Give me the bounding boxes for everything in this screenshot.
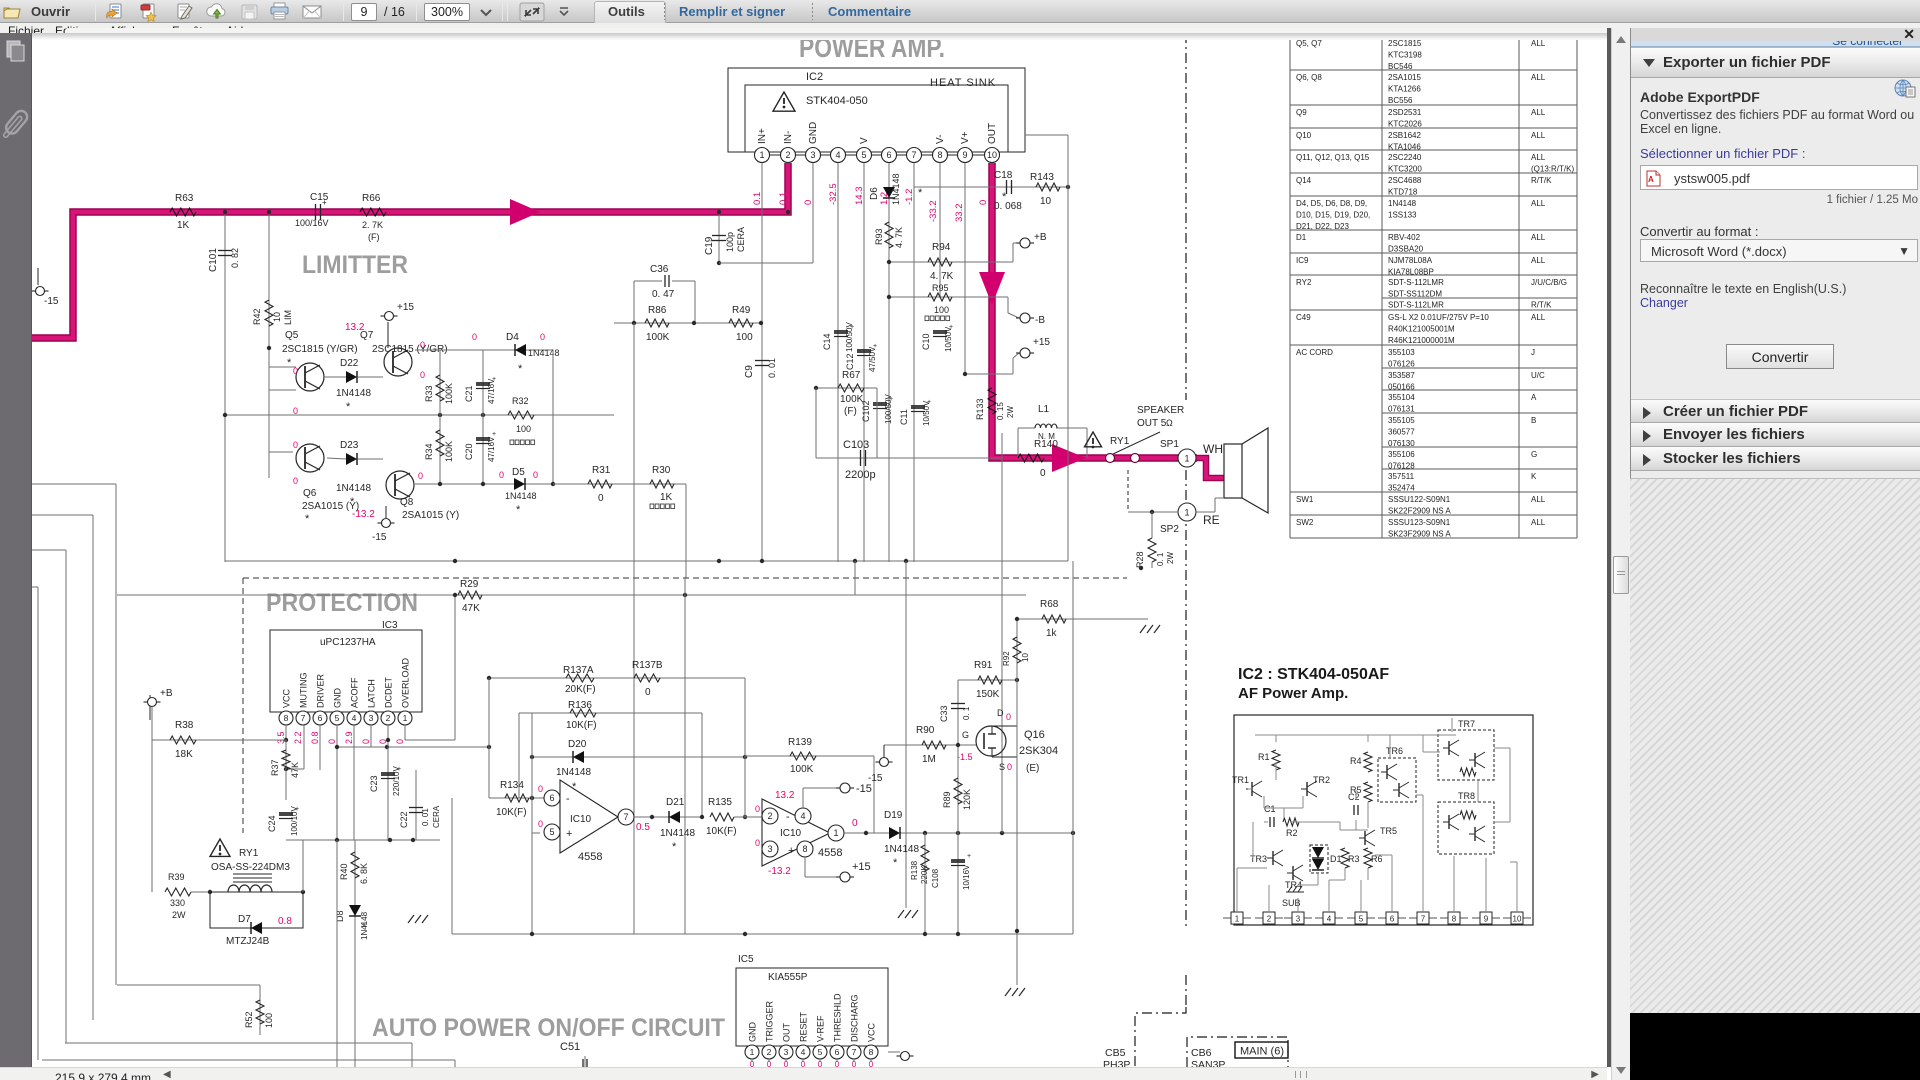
svg-text:4: 4: [1327, 915, 1332, 924]
svg-text:0: 0: [852, 1060, 857, 1067]
svg-text:D4: D4: [506, 332, 519, 343]
svg-text:Q14: Q14: [1296, 176, 1312, 185]
svg-text:R29: R29: [460, 579, 479, 590]
svg-text:0: 0: [418, 471, 423, 481]
svg-text:C14: C14: [822, 333, 832, 350]
svg-text:ALL: ALL: [1531, 39, 1546, 48]
svg-text:C108: C108: [931, 868, 940, 888]
svg-text:076128: 076128: [1388, 462, 1415, 471]
svg-text:K: K: [1531, 472, 1537, 481]
svg-text:LIM: LIM: [283, 310, 293, 325]
svg-text:1: 1: [759, 150, 764, 160]
svg-text:D: D: [997, 708, 1004, 718]
svg-text:Q5, Q7: Q5, Q7: [1296, 39, 1322, 48]
svg-text:2: 2: [767, 811, 772, 821]
svg-text:OUT 5: OUT 5: [1137, 418, 1167, 429]
svg-text:5: 5: [1359, 915, 1364, 924]
svg-text:0: 0: [645, 687, 651, 698]
svg-text:OUT: OUT: [782, 1023, 792, 1043]
svg-text:0: 0: [978, 200, 989, 205]
svg-text:7: 7: [623, 812, 628, 822]
svg-text:33.2: 33.2: [954, 204, 965, 223]
svg-text:D19: D19: [884, 810, 903, 821]
svg-text:R46K121000001M: R46K121000001M: [1388, 336, 1455, 345]
svg-text:SW2: SW2: [1296, 518, 1314, 527]
svg-text:J/U/C/B/G: J/U/C/B/G: [1531, 278, 1567, 287]
svg-text:10K(F): 10K(F): [706, 826, 737, 837]
svg-text:R92: R92: [1002, 651, 1011, 666]
svg-text:4558: 4558: [578, 851, 602, 863]
svg-text:0.5: 0.5: [636, 822, 650, 833]
svg-text:DCDET: DCDET: [384, 676, 394, 708]
svg-text:2SB1642: 2SB1642: [1388, 131, 1421, 140]
svg-text:2W: 2W: [1166, 552, 1175, 564]
svg-text:0: 0: [420, 370, 425, 380]
svg-text:MTZJ24B: MTZJ24B: [226, 936, 270, 947]
svg-text:VCC: VCC: [867, 1022, 877, 1042]
svg-text:BC546: BC546: [1388, 62, 1413, 71]
svg-text:13.2: 13.2: [345, 322, 365, 333]
svg-text:LIMITTER: LIMITTER: [302, 251, 408, 279]
svg-text:SAN3P: SAN3P: [1191, 1059, 1225, 1067]
svg-text:6: 6: [835, 1047, 840, 1057]
svg-text:0: 0: [755, 804, 760, 814]
svg-text:-15: -15: [868, 773, 883, 784]
svg-text:+: +: [566, 828, 572, 840]
svg-text:47/50V: 47/50V: [868, 346, 877, 372]
svg-text:GND: GND: [808, 122, 819, 144]
svg-text:0.1: 0.1: [778, 192, 789, 205]
svg-text:R33: R33: [424, 385, 434, 402]
svg-text:R94: R94: [932, 242, 951, 253]
svg-text:R137A: R137A: [563, 665, 594, 676]
svg-text:0: 0: [293, 476, 298, 486]
svg-text:SP1: SP1: [1160, 439, 1179, 450]
svg-text:-13.2: -13.2: [768, 866, 791, 877]
svg-text:CERA: CERA: [432, 805, 441, 828]
svg-text:TR8: TR8: [1458, 791, 1475, 801]
svg-text:S: S: [999, 762, 1005, 772]
svg-text:IN-: IN-: [783, 131, 794, 144]
svg-text:C103: C103: [843, 439, 869, 451]
svg-text:TR7: TR7: [1458, 719, 1475, 729]
svg-text:5: 5: [335, 713, 340, 723]
svg-text:R42: R42: [252, 308, 262, 325]
svg-text:R137B: R137B: [632, 660, 663, 671]
svg-text:C9: C9: [744, 365, 755, 378]
svg-text:R28: R28: [1135, 551, 1145, 568]
svg-text:Q9: Q9: [1296, 108, 1307, 117]
svg-text:0. 01: 0. 01: [421, 808, 430, 826]
svg-text:R37: R37: [270, 759, 280, 776]
svg-text:TR6: TR6: [1386, 746, 1403, 756]
svg-text:8: 8: [284, 713, 289, 723]
svg-text:-15: -15: [372, 532, 387, 543]
svg-text:ALL: ALL: [1531, 73, 1546, 82]
svg-text:13.2: 13.2: [775, 790, 795, 801]
svg-text:0: 0: [869, 1060, 874, 1067]
svg-text:R52: R52: [244, 1011, 254, 1028]
svg-text:0: 0: [538, 819, 543, 829]
svg-text:+B: +B: [1034, 232, 1047, 243]
svg-text:2SA1015 (Y): 2SA1015 (Y): [302, 501, 359, 512]
svg-text:C33: C33: [939, 705, 949, 722]
svg-text:-B: -B: [1035, 315, 1045, 326]
svg-text:-: -: [566, 793, 570, 805]
svg-text:1N4148: 1N4148: [891, 173, 901, 205]
svg-text:GND: GND: [333, 688, 343, 709]
svg-text:C11: C11: [899, 409, 909, 425]
svg-text:R67: R67: [842, 370, 861, 381]
svg-text:SP2: SP2: [1160, 524, 1179, 535]
svg-text:-: -: [786, 811, 790, 823]
svg-text:D1: D1: [1330, 854, 1342, 864]
svg-text:18K: 18K: [175, 749, 193, 760]
svg-text:OSA-SS-224DM3: OSA-SS-224DM3: [211, 862, 290, 873]
svg-text:0. 47: 0. 47: [652, 289, 675, 300]
svg-text:RBV-402: RBV-402: [1388, 233, 1421, 242]
svg-text:C21: C21: [464, 385, 474, 402]
svg-text:0. 82: 0. 82: [230, 248, 240, 268]
svg-text:+15: +15: [1033, 337, 1050, 348]
svg-text:RY1: RY1: [1110, 436, 1130, 447]
svg-text:076130: 076130: [1388, 439, 1415, 448]
svg-text:2: 2: [1267, 915, 1272, 924]
svg-text:uPC1237HA: uPC1237HA: [320, 637, 376, 648]
svg-text:1N4148: 1N4148: [336, 483, 371, 494]
svg-text:SK23F2909 NS A: SK23F2909 NS A: [1388, 530, 1451, 539]
svg-text:R1: R1: [1258, 752, 1270, 762]
svg-text:47K: 47K: [290, 762, 300, 778]
svg-text:R134: R134: [500, 780, 524, 791]
svg-text:0: 0: [852, 818, 858, 829]
svg-text:R38: R38: [175, 720, 194, 731]
svg-text:ALL: ALL: [1531, 313, 1546, 322]
svg-text:0: 0: [1007, 762, 1012, 772]
svg-text:+: +: [967, 853, 971, 860]
svg-text:1: 1: [1184, 508, 1189, 518]
svg-text:R89: R89: [942, 791, 952, 808]
svg-text:C11: C11: [899, 438, 901, 440]
svg-text:RY1: RY1: [239, 848, 259, 859]
svg-text:R93: R93: [874, 228, 884, 245]
svg-text:1SS133: 1SS133: [1388, 211, 1417, 220]
svg-text:0: 0: [801, 1060, 806, 1067]
svg-text:(E): (E): [1026, 763, 1039, 774]
svg-text:KTC3200: KTC3200: [1388, 165, 1422, 174]
svg-text:R40K121005001M: R40K121005001M: [1388, 325, 1455, 334]
svg-text:353587: 353587: [1388, 371, 1415, 380]
svg-text:R66: R66: [362, 193, 381, 204]
svg-text:9: 9: [1484, 915, 1489, 924]
svg-text:TRIGGER: TRIGGER: [765, 1000, 775, 1042]
svg-text:0: 0: [499, 470, 504, 480]
svg-text:100K: 100K: [444, 441, 454, 462]
svg-text:076131: 076131: [1388, 405, 1415, 414]
svg-text:0: 0: [598, 493, 604, 504]
svg-text:4: 4: [835, 150, 840, 160]
svg-text:050166: 050166: [1388, 383, 1415, 392]
svg-text:IC10: IC10: [570, 814, 592, 825]
svg-text:AUTO POWER ON/OFF CIRCUIT: AUTO POWER ON/OFF CIRCUIT: [372, 1014, 725, 1042]
svg-text:AF Power Amp.: AF Power Amp.: [1238, 685, 1348, 702]
svg-text:ALL: ALL: [1531, 495, 1546, 504]
svg-text:0: 0: [395, 739, 405, 744]
svg-text:SDT-S-112LMR: SDT-S-112LMR: [1388, 278, 1444, 287]
svg-text:2: 2: [767, 1047, 772, 1057]
svg-text:OVERLOAD: OVERLOAD: [401, 657, 411, 708]
svg-text:2W: 2W: [1006, 406, 1015, 418]
svg-text:PROTECTION: PROTECTION: [266, 589, 418, 617]
svg-text:THRESHLD: THRESHLD: [833, 993, 843, 1042]
svg-text:0.8: 0.8: [310, 731, 320, 744]
svg-text:(F): (F): [368, 232, 380, 242]
svg-text:0: 0: [803, 200, 814, 205]
svg-text:ALL: ALL: [1531, 131, 1546, 140]
svg-text:100/16V: 100/16V: [295, 218, 329, 228]
svg-text:-13.2: -13.2: [352, 509, 375, 520]
svg-text:R86: R86: [648, 305, 667, 316]
svg-text:NJM78L08A: NJM78L08A: [1388, 256, 1433, 265]
svg-text:1: 1: [1235, 915, 1240, 924]
svg-text:C12: C12: [845, 353, 855, 370]
svg-text:KTA1046: KTA1046: [1388, 143, 1421, 152]
svg-text:L1: L1: [1038, 404, 1050, 415]
svg-text:100/50V: 100/50V: [845, 322, 854, 352]
svg-text:+B: +B: [160, 688, 173, 699]
svg-text:357511: 357511: [1388, 472, 1415, 481]
svg-text:0: 0: [767, 1060, 772, 1067]
svg-text:100: 100: [934, 305, 949, 315]
svg-text:R143: R143: [1030, 172, 1054, 183]
svg-text:R133: R133: [975, 398, 985, 420]
svg-text:7: 7: [852, 1047, 857, 1057]
svg-text:R34: R34: [424, 443, 434, 460]
svg-text:47K: 47K: [462, 603, 480, 614]
svg-text:STK404-050: STK404-050: [806, 95, 868, 107]
svg-text:1N4148: 1N4148: [336, 388, 371, 399]
svg-text:20K(F): 20K(F): [565, 684, 596, 695]
svg-text:352474: 352474: [1388, 484, 1415, 493]
svg-text:RE: RE: [1203, 513, 1220, 527]
svg-text:D6: D6: [869, 187, 880, 200]
svg-text:0: 0: [784, 1060, 789, 1067]
svg-text:-1.5: -1.5: [957, 752, 973, 762]
svg-text:J: J: [1531, 348, 1535, 357]
svg-text:Q5: Q5: [285, 330, 299, 341]
svg-text:330: 330: [170, 898, 185, 908]
svg-text:R40: R40: [339, 863, 349, 880]
svg-text:355105: 355105: [1388, 416, 1415, 425]
svg-text:10/50V: 10/50V: [922, 400, 931, 426]
svg-text:47/16V: 47/16V: [487, 378, 496, 404]
svg-text:A: A: [1531, 393, 1537, 402]
svg-text:R4: R4: [1350, 756, 1362, 766]
svg-text:IC3: IC3: [382, 620, 398, 631]
svg-text:100p: 100p: [725, 232, 735, 252]
svg-text:+15: +15: [397, 302, 414, 313]
svg-text:1M: 1M: [922, 754, 936, 765]
svg-text:R/T/K: R/T/K: [1531, 301, 1552, 310]
svg-text:D21, D22, D23: D21, D22, D23: [1296, 222, 1349, 231]
svg-text:HEAT SINK: HEAT SINK: [930, 77, 996, 89]
svg-text:G: G: [962, 730, 969, 740]
svg-text:ALL: ALL: [1531, 153, 1546, 162]
svg-text:TR2: TR2: [1313, 775, 1330, 785]
svg-text:2SA1015 (Y): 2SA1015 (Y): [402, 510, 459, 521]
svg-text:10: 10: [1513, 915, 1522, 924]
svg-text:6: 6: [549, 793, 554, 803]
svg-text:3: 3: [810, 150, 815, 160]
svg-text:10: 10: [1040, 196, 1052, 207]
svg-text:G: G: [1531, 450, 1537, 459]
svg-text:0. 15: 0. 15: [996, 402, 1005, 420]
svg-text:R2: R2: [1286, 828, 1298, 838]
svg-text:*: *: [305, 513, 310, 525]
svg-text:10/50V: 10/50V: [944, 326, 953, 352]
svg-text:1: 1: [833, 828, 838, 838]
svg-text:7: 7: [1421, 915, 1426, 924]
svg-text:R95: R95: [932, 283, 949, 293]
svg-text:-32.5: -32.5: [828, 183, 839, 205]
svg-text:D22: D22: [340, 358, 359, 369]
svg-text:SW1: SW1: [1296, 495, 1314, 504]
svg-text:6. 8K: 6. 8K: [359, 863, 369, 884]
svg-text:100/50V: 100/50V: [884, 394, 893, 424]
svg-text:2: 2: [785, 150, 790, 160]
svg-text:4: 4: [352, 713, 357, 723]
svg-text:0. 01: 0. 01: [767, 358, 777, 378]
svg-text:D21: D21: [666, 797, 685, 808]
svg-text:0: 0: [818, 1060, 823, 1067]
svg-text:120K: 120K: [962, 789, 972, 810]
svg-text:V-REF: V-REF: [816, 1015, 826, 1042]
svg-text:6: 6: [1390, 915, 1395, 924]
svg-text:KIA78L08BP: KIA78L08BP: [1388, 268, 1434, 277]
svg-text:WH: WH: [1203, 442, 1223, 456]
svg-text:0. 1: 0. 1: [962, 706, 971, 720]
svg-text:Q16: Q16: [1024, 729, 1045, 741]
svg-text:R63: R63: [175, 193, 194, 204]
svg-text:10/16V: 10/16V: [962, 864, 971, 890]
svg-text:(F): (F): [844, 406, 857, 417]
svg-text:355103: 355103: [1388, 348, 1415, 357]
svg-text:1: 1: [403, 713, 408, 723]
svg-text:2.9: 2.9: [344, 731, 354, 744]
svg-text:2SA1015: 2SA1015: [1388, 73, 1421, 82]
svg-text:C22: C22: [399, 811, 409, 828]
svg-text:100: 100: [264, 1013, 274, 1028]
svg-text:3: 3: [767, 844, 772, 854]
svg-text:100K: 100K: [444, 383, 454, 404]
svg-text:R30: R30: [652, 465, 671, 476]
svg-text:IC2: IC2: [806, 71, 823, 83]
svg-text:IC2 : STK404-050AF: IC2 : STK404-050AF: [1238, 666, 1389, 683]
svg-text:C49: C49: [1296, 313, 1311, 322]
svg-text:V: V: [859, 137, 870, 144]
svg-text:ALL: ALL: [1531, 108, 1546, 117]
svg-text:IC5: IC5: [738, 954, 754, 965]
svg-text:1N4148: 1N4148: [884, 844, 919, 855]
svg-text:5: 5: [818, 1047, 823, 1057]
svg-text:0.1: 0.1: [752, 192, 763, 205]
svg-text:RY2: RY2: [1296, 278, 1312, 287]
svg-text:D7: D7: [238, 914, 251, 925]
svg-text:C51: C51: [560, 1041, 580, 1053]
svg-text:4558: 4558: [818, 847, 842, 859]
svg-text:*: *: [362, 922, 366, 933]
svg-text:CERA: CERA: [736, 227, 746, 252]
svg-text:GND: GND: [748, 1022, 758, 1043]
svg-text:R3: R3: [1348, 854, 1360, 864]
svg-text:10: 10: [272, 312, 282, 322]
svg-text:R31: R31: [592, 465, 611, 476]
svg-text:MAIN (6): MAIN (6): [1240, 1046, 1284, 1058]
svg-text:+: +: [788, 845, 794, 857]
svg-text:0: 0: [533, 470, 538, 480]
svg-text:3.5: 3.5: [276, 731, 286, 744]
svg-text:C18: C18: [994, 170, 1013, 181]
svg-text:TR1: TR1: [1232, 775, 1249, 785]
svg-text:-15: -15: [44, 296, 59, 307]
svg-text:220/10V: 220/10V: [392, 766, 401, 796]
svg-text:076126: 076126: [1388, 360, 1415, 369]
svg-text:C23: C23: [369, 775, 379, 792]
svg-text:D10, D15, D19, D20,: D10, D15, D19, D20,: [1296, 211, 1370, 220]
svg-text:R136: R136: [568, 700, 592, 711]
svg-text:Q10: Q10: [1296, 131, 1312, 140]
svg-text:C1: C1: [1264, 804, 1276, 814]
svg-text:8: 8: [937, 150, 942, 160]
svg-text:10: 10: [1021, 653, 1030, 662]
svg-text:1N4148: 1N4148: [505, 491, 537, 501]
svg-text:100K: 100K: [790, 764, 814, 775]
svg-text:Q8: Q8: [400, 497, 414, 508]
svg-text:C24: C24: [267, 815, 277, 832]
svg-text:*: *: [516, 504, 521, 516]
svg-text:D5: D5: [512, 467, 525, 478]
svg-text:7: 7: [911, 150, 916, 160]
svg-text:R68: R68: [1040, 599, 1059, 610]
svg-text:+15: +15: [852, 861, 871, 873]
svg-text:4: 4: [801, 1047, 806, 1057]
svg-text:7: 7: [301, 713, 306, 723]
svg-text:1: 1: [1184, 454, 1189, 464]
svg-text:PH3P: PH3P: [1103, 1059, 1130, 1067]
svg-text:2SK304: 2SK304: [1019, 745, 1058, 757]
svg-text:*: *: [918, 187, 923, 199]
svg-text:CB6: CB6: [1191, 1047, 1212, 1059]
svg-text:8: 8: [802, 844, 807, 854]
svg-text:*: *: [572, 781, 577, 793]
svg-text:SDT-SS112DM: SDT-SS112DM: [1388, 290, 1442, 299]
svg-text:D1: D1: [1296, 233, 1307, 242]
svg-text:IN+: IN+: [757, 128, 768, 144]
svg-text:10K(F): 10K(F): [496, 807, 527, 818]
svg-text:1K: 1K: [660, 492, 673, 503]
svg-text:MUTING: MUTING: [299, 673, 309, 709]
svg-text:TR5: TR5: [1380, 826, 1397, 836]
svg-text:AC CORD: AC CORD: [1296, 348, 1333, 357]
svg-text:2SC1815 (Y/GR): 2SC1815 (Y/GR): [282, 344, 358, 355]
svg-text:0: 0: [540, 332, 545, 342]
svg-text:0. 1: 0. 1: [1156, 552, 1165, 566]
svg-text:0: 0: [1040, 468, 1046, 479]
svg-text:0: 0: [327, 739, 337, 744]
svg-text:ALL: ALL: [1531, 199, 1546, 208]
svg-text:KTC2026: KTC2026: [1388, 120, 1422, 129]
svg-text:0: 0: [420, 340, 425, 350]
